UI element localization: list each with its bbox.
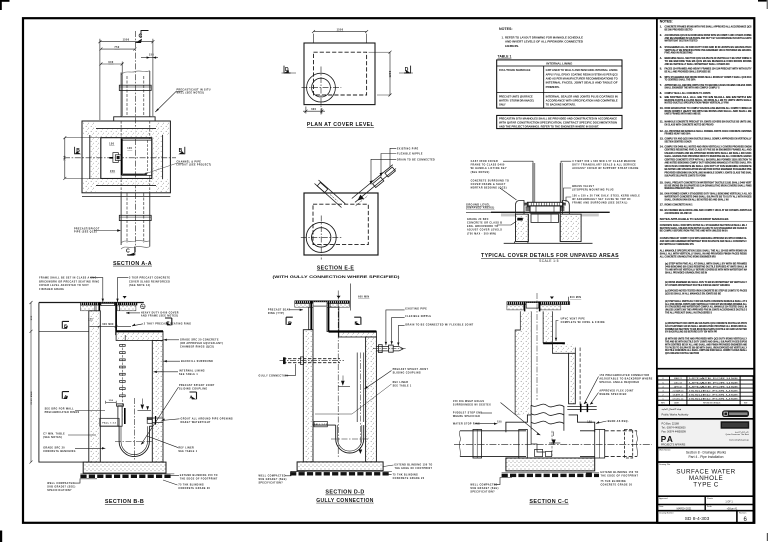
svg-text:150: 150 xyxy=(149,53,154,56)
dimension 750 xyxy=(99,46,136,51)
leader: cast iron cover (top left) xyxy=(471,160,533,174)
svg-text:WHERE SPECIFIED: WHERE SPECIFIED xyxy=(453,416,480,418)
overall depth dimension (left) xyxy=(30,301,33,464)
svg-text:FALL 1:12: FALL 1:12 xyxy=(314,423,328,426)
surround ring stipple corners xyxy=(83,122,170,192)
svg-text:600 MIN: 600 MIN xyxy=(570,297,581,299)
table 1 frame xyxy=(497,60,622,108)
benching edge hatched strip xyxy=(123,174,147,176)
svg-text:CONCRETE SURROUND TO: CONCRETE SURROUND TO xyxy=(471,181,510,183)
leader: heavy duty cover xyxy=(126,311,179,317)
leader: blinding concrete (bottom right 2) xyxy=(385,474,425,480)
svg-text:SD 8-4-303: SD 8-4-303 xyxy=(685,516,710,522)
leader: blinding concrete (bottom right 2) xyxy=(163,480,211,490)
svg-text:THE EDGE OF FOOTPRINT: THE EDGE OF FOOTPRINT xyxy=(180,478,218,480)
svg-text:COMPLETE W/ COWL & FIXING: COMPLETE W/ COWL & FIXING xyxy=(561,322,605,324)
svg-text:75 THK BLINDING: 75 THK BLINDING xyxy=(393,474,419,476)
cover centrelines xyxy=(301,236,342,238)
incoming pipe (top, plan) xyxy=(119,71,151,117)
svg-text:Date: Date xyxy=(659,505,663,508)
svg-text:ACCORDANCE WITH SPECIFICATION: ACCORDANCE WITH SPECIFICATION AND COMPAT… xyxy=(546,100,618,103)
dark anchor mark xyxy=(586,472,592,476)
leader: spigot pipe joint (diagonal) xyxy=(141,384,215,445)
svg-text:ACCORDANCE 124 AND UN: ACCORDANCE 124 AND UN xyxy=(665,211,692,215)
svg-text:LAYOUT (SEE PROJECT): LAYOUT (SEE PROJECT) xyxy=(177,164,212,167)
blinding layer xyxy=(502,474,599,477)
leader: bend as required xyxy=(596,420,629,424)
cover and frame band xyxy=(295,301,350,308)
svg-text:WITH QATAR CONSTRUCTION SPECIF: WITH QATAR CONSTRUCTION SPECIFICATION, C… xyxy=(499,122,617,125)
svg-text:THE EDGE OF FOOTPRINT: THE EDGE OF FOOTPRINT xyxy=(601,476,639,478)
svg-text:ISSUED FOR USE: ISSUED FOR USE xyxy=(689,398,739,400)
svg-text:C? MIN. TABLE: C? MIN. TABLE xyxy=(43,432,65,435)
svg-text:SUB GRADE? (SEE): SUB GRADE? (SEE) xyxy=(259,478,287,481)
leader: ground level (left) xyxy=(466,203,495,212)
channel (half pipe) xyxy=(336,425,364,453)
svg-text:75 THK BLINDING: 75 THK BLINDING xyxy=(178,485,204,487)
svg-text:Public Works Authority: Public Works Authority xyxy=(662,413,689,417)
ground shading strips xyxy=(501,213,516,216)
svg-text:SEE DRG FOR WALL: SEE DRG FOR WALL xyxy=(45,408,75,411)
svg-text:PRECAST/SPIGOT: PRECAST/SPIGOT xyxy=(74,228,100,231)
corner registration mark top-right xyxy=(758,0,768,9)
svg-text:EXISTING PIPE: EXISTING PIPE xyxy=(405,309,427,311)
svg-text:750: 750 xyxy=(114,46,119,49)
svg-text:SCALE 1:5: SCALE 1:5 xyxy=(539,259,559,263)
svg-text:NOTES:: NOTES: xyxy=(660,19,673,23)
svg-text:1500: 1500 xyxy=(337,29,344,32)
leader: existing pipe xyxy=(385,309,428,346)
gully connection pipe xyxy=(280,357,345,365)
base slab edge below square xyxy=(82,196,170,198)
benching xyxy=(313,424,336,426)
svg-text:1200: 1200 xyxy=(389,70,392,77)
svg-text:ADJUSTABLE TO BACKDROP WHERE: ADJUSTABLE TO BACKDROP WHERE xyxy=(599,377,652,380)
centerline xyxy=(134,31,136,252)
leader: frame bedding note (top left) xyxy=(39,276,104,302)
svg-text:PRECAST UNITS (SURFACE: PRECAST UNITS (SURFACE xyxy=(499,95,533,98)
corner registration mark top-left xyxy=(0,0,10,10)
leader: brass plug (right) xyxy=(564,185,615,200)
leader: see drawing note (left) xyxy=(45,408,105,415)
svg-text:INTERNAL LINING: INTERNAL LINING xyxy=(546,61,573,65)
leader: surround spec (right) xyxy=(566,194,640,204)
svg-text:IRONS CONCRETE IN IN 1: IRONS CONCRETE IN IN 1 xyxy=(665,203,693,207)
svg-text:Scale: Scale xyxy=(707,506,712,508)
section cut marker C (bottom) xyxy=(126,247,135,256)
svg-text:Sheets: Sheets xyxy=(707,497,713,500)
leader: extend blinding (bottom right) xyxy=(384,464,433,470)
svg-text:COVER FRAME & SHAFT: COVER FRAME & SHAFT xyxy=(471,183,506,186)
svg-text:WELL COMPACTED: WELL COMPACTED xyxy=(47,482,74,485)
dimension 1200 (right) xyxy=(369,51,392,97)
svg-text:600 MIN: 600 MIN xyxy=(358,297,369,299)
section flag E (right) xyxy=(165,318,172,326)
svg-text:(SEE NOTES): (SEE NOTES) xyxy=(43,437,62,439)
cover and frame band xyxy=(81,303,138,311)
base slab xyxy=(506,458,595,471)
svg-text:(WITH GULLY CONNECTION WHERE S: (WITH GULLY CONNECTION WHERE SPECIFIED) xyxy=(273,274,401,279)
svg-text:EXTEND BLINDING 150 TO: EXTEND BLINDING 150 TO xyxy=(601,472,639,474)
svg-text:DRAIN TO BE CONNECTED W/ FLEXI: DRAIN TO BE CONNECTED W/ FLEXIBLE JOINT xyxy=(405,323,473,326)
svg-text:EN VERTICALLY BENCHING STE: EN VERTICALLY BENCHING STE xyxy=(660,242,694,246)
svg-text:WELL COMPACTED: WELL COMPACTED xyxy=(259,475,286,478)
svg-text:PRECAST/IN SITU MANHOLES SHALL: PRECAST/IN SITU MANHOLES SHALL BE PROVID… xyxy=(499,118,617,121)
dimension 600 (bottom) xyxy=(303,107,325,114)
pipe centreline xyxy=(454,443,652,445)
svg-text:WATER STOP RING: WATER STOP RING xyxy=(453,423,480,426)
left chamber wall xyxy=(303,330,313,462)
clear opening (dashed) xyxy=(314,52,367,95)
svg-text:AND INVERT LEVELS OF ALL PIPEW: AND INVERT LEVELS OF ALL PIPEWORK CONNEC… xyxy=(505,40,583,44)
revision table xyxy=(657,376,753,405)
title block xyxy=(657,405,753,523)
svg-text:CONCRETE GRADE 20: CONCRETE GRADE 20 xyxy=(393,477,425,480)
drop pipe in chamber xyxy=(357,353,364,455)
svg-text:ACCESS? COVER W/ SUPPORT STRAP: ACCESS? COVER W/ SUPPORT STRAP FRAME xyxy=(572,167,639,170)
svg-text:09 APR 15: 09 APR 15 xyxy=(673,393,684,396)
svg-text:SPECIFICATION?: SPECIFICATION? xyxy=(259,482,284,485)
leader: flexible nipple xyxy=(380,154,423,177)
svg-text:ADJUST COVER LEVELS: ADJUST COVER LEVELS xyxy=(467,229,502,232)
svg-text:100: 100 xyxy=(127,148,132,150)
section flag A (left) xyxy=(62,392,69,399)
svg-text:WALL (SEE NOTES): WALL (SEE NOTES) xyxy=(177,92,205,95)
chamber internals xyxy=(531,431,560,457)
svg-text:BACKFILL SURROUND: BACKFILL SURROUND xyxy=(181,360,213,363)
leader: cover spec note (top right) xyxy=(116,276,170,302)
svg-text:21 MAR 16: 21 MAR 16 xyxy=(673,389,685,392)
svg-text:150: 150 xyxy=(88,319,93,321)
svg-text:Revision: Revision xyxy=(739,513,746,515)
riser walls xyxy=(532,163,534,202)
svg-text:Drawing Number: Drawing Number xyxy=(659,512,674,515)
svg-text:MAKE? WATERTIGHT: MAKE? WATERTIGHT xyxy=(181,421,211,424)
benching xyxy=(100,425,119,427)
step iron detail xyxy=(109,153,121,163)
reducing slab (right) xyxy=(116,331,163,340)
svg-text:UPDATE FOR USE: UPDATE FOR USE xyxy=(689,381,739,384)
svg-text:NOTED DUCTILE SPECIFICATION FI: NOTED DUCTILE SPECIFICATION FINISH VERTI… xyxy=(665,101,729,105)
svg-text:3 TIER? 600 x 600 MIN 1.5T CLE: 3 TIER? 600 x 600 MIN 1.5T CLEAR MEDIUM xyxy=(572,160,635,163)
svg-text:علم قطر للجميع: علم قطر للجميع xyxy=(735,430,749,433)
svg-text:SURROUNDED W/ GEOTEX: SURROUNDED W/ GEOTEX xyxy=(453,404,491,406)
leader: gl min table xyxy=(43,432,96,439)
section flag A (right) xyxy=(190,392,197,400)
svg-text:SPECIAL ANGLE REQUIRED: SPECIAL ANGLE REQUIRED xyxy=(599,381,639,384)
svg-text:PA: PA xyxy=(661,435,674,444)
bitumen seal mark xyxy=(517,218,523,221)
right wall (concrete) xyxy=(152,341,163,463)
svg-text:CONCRETE GRADE 20: CONCRETE GRADE 20 xyxy=(178,487,210,490)
corner registration mark bottom-left xyxy=(0,531,2,542)
step irons xyxy=(120,344,126,420)
vertical pipe piece / step detail xyxy=(117,404,125,426)
svg-text:Qatar Deserves The Best: Qatar Deserves The Best xyxy=(725,433,749,436)
notes panel bottom rule xyxy=(657,368,755,370)
svg-text:3 TIER PRECAST CONCRETE: 3 TIER PRECAST CONCRETE xyxy=(129,276,171,279)
svg-text:FLEXIBLE NIPPLE: FLEXIBLE NIPPLE xyxy=(397,154,423,156)
svg-text:14.: 14. xyxy=(660,144,664,148)
svg-text:(SEE NOTES): (SEE NOTES) xyxy=(471,172,490,174)
svg-text:DUTY TRIANGULAR? SEALS & ALL S: DUTY TRIANGULAR? SEALS & ALL SERVICE xyxy=(572,164,636,167)
svg-text:CONCRETE OR CLASS B: CONCRETE OR CLASS B xyxy=(467,222,502,225)
leader: precast seating ring xyxy=(132,323,191,326)
svg-text:11.: 11. xyxy=(660,120,664,124)
svg-text:UPDATE FOR USE: UPDATE FOR USE xyxy=(689,377,739,380)
bottom line xyxy=(504,242,593,244)
right outer wall xyxy=(569,353,576,404)
cover and frame band xyxy=(507,302,570,310)
water symbol xyxy=(550,297,554,300)
opening edge heavy line xyxy=(121,139,123,176)
svg-text:GRADE 20 SRC: GRADE 20 SRC xyxy=(467,218,489,221)
svg-text:CAST IRON COVER: CAST IRON COVER xyxy=(471,160,498,163)
base slab xyxy=(83,462,166,473)
wall outer face xyxy=(90,128,163,185)
leader: mortar joint (right) xyxy=(164,338,224,348)
dimension 1200 (left) xyxy=(63,136,101,180)
left wall (concrete) xyxy=(89,311,101,462)
bench blocks xyxy=(506,415,531,432)
svg-text:16.: 16. xyxy=(660,192,664,196)
svg-text:FIVE AND IN RESISTING: FIVE AND IN RESISTING xyxy=(665,51,693,55)
svg-text:TABLE 1: TABLE 1 xyxy=(498,55,512,59)
svg-text:6.: 6. xyxy=(660,75,662,79)
svg-text:INTERNAL LINING: INTERNAL LINING xyxy=(179,370,205,373)
svg-text:SPECIFICATION?: SPECIFICATION? xyxy=(47,489,72,492)
leader: precast wall note xyxy=(155,89,210,112)
svg-text:4.: 4. xyxy=(660,56,662,60)
svg-text:APPLY FULL EPOXY COATING RESIN: APPLY FULL EPOXY COATING RESIN SYSTEM AS… xyxy=(546,73,618,76)
leader: prefabricated connector xyxy=(584,374,653,404)
opening edges xyxy=(310,301,312,330)
svg-text:BE 300 PROVIDED SECTIO: BE 300 PROVIDED SECTIO xyxy=(665,27,693,31)
water symbol above cover xyxy=(123,296,127,299)
svg-text:12.: 12. xyxy=(660,129,664,133)
leader: water stop xyxy=(453,423,497,426)
leader: watertight grout xyxy=(162,417,234,424)
svg-text:150 PREFABRICATED CONNECTOR: 150 PREFABRICATED CONNECTOR xyxy=(599,374,649,377)
svg-text:150: 150 xyxy=(109,400,114,402)
svg-text:PREFABRICATED RINGS: PREFABRICATED RINGS xyxy=(45,411,80,414)
svg-text:150: 150 xyxy=(110,170,116,173)
svg-text:NOTES APPLICABLE TO BACKDROP M: NOTES APPLICABLE TO BACKDROP MANHOLES xyxy=(660,217,729,221)
leader: compacted subgrade (bottom left) xyxy=(259,471,306,484)
svg-text:15.: 15. xyxy=(660,180,664,184)
svg-text:1.: 1. xyxy=(660,25,662,29)
svg-text:Section 8 - Drainage Works: Section 8 - Drainage Works xyxy=(686,451,727,455)
svg-text:COVER LEVEL ADJUSTED TO SUIT: COVER LEVEL ADJUSTED TO SUIT xyxy=(39,284,89,287)
svg-text:C: C xyxy=(126,249,130,255)
leader: extend blinding (bottom right) xyxy=(601,472,639,478)
svg-text:Fax: 00974 44950599: Fax: 00974 44950599 xyxy=(662,431,687,434)
main pipe (left) xyxy=(459,429,527,458)
svg-text:MAR 21: MAR 21 xyxy=(674,377,683,380)
svg-text:REF LINER: REF LINER xyxy=(178,447,194,449)
leader: existing pipe xyxy=(390,148,419,167)
svg-text:SEE TABLE 1: SEE TABLE 1 xyxy=(179,373,198,376)
notes column text xyxy=(660,19,753,355)
inlet pipe (top-left diagonal) xyxy=(315,180,346,208)
dimension 600 (shaft) xyxy=(89,324,131,328)
svg-text:SUB GRADE? (SEE): SUB GRADE? (SEE) xyxy=(470,487,498,490)
svg-text:EXTEND BLINDING 150 TO: EXTEND BLINDING 150 TO xyxy=(180,475,218,477)
existing pipe (top-right diagonal) xyxy=(352,165,396,206)
section cut marker B (left) xyxy=(75,147,81,154)
svg-text:PRECAST/CAST IN SITU: PRECAST/CAST IN SITU xyxy=(177,89,211,92)
svg-text:2150 MAX: 2150 MAX xyxy=(30,391,33,405)
leader: extend blinding (bottom right) xyxy=(170,475,218,481)
svg-text:(UNPAVED AREAS): (UNPAVED AREAS) xyxy=(466,207,495,210)
opening edges xyxy=(524,302,526,312)
manhole surround (outer square) xyxy=(82,121,170,193)
leader: precast seating (left) xyxy=(268,309,303,315)
notes column divider xyxy=(656,18,658,523)
svg-text:GULLY CONNECTION: GULLY CONNECTION xyxy=(259,375,289,377)
svg-text:ISSUED FOR USE: ISSUED FOR USE xyxy=(689,394,739,396)
svg-text:SLIDING COUPLING: SLIDING COUPLING xyxy=(179,388,207,390)
svg-text:REFER TO LAYOUT DRAWING FOR MA: REFER TO LAYOUT DRAWING FOR MANHOLE SCHE… xyxy=(505,35,583,39)
svg-text:HEAVY DUTY D400 COVER: HEAVY DUTY D400 COVER xyxy=(141,311,179,314)
svg-text:BE ALL AND PROVIDED SHALL EXPO: BE ALL AND PROVIDED SHALL EXPOSED BE xyxy=(665,70,711,74)
leader: triple seal cover (top right) xyxy=(561,160,639,170)
svg-text:GROUT ALL AROUND PIPE OPENING: GROUT ALL AROUND PIPE OPENING xyxy=(181,417,234,420)
svg-text:SECTION C-C: SECTION C-C xyxy=(529,499,568,505)
svg-text:13.: 13. xyxy=(660,137,664,141)
leader: drain connection xyxy=(397,323,474,346)
svg-text:W/ ANCHORAGE? SET FLUSH W/ TOP: W/ ANCHORAGE? SET FLUSH W/ TOP OF xyxy=(572,198,631,201)
svg-text:FLEXIBLE NIPPLE: FLEXIBLE NIPPLE xyxy=(405,316,431,318)
svg-text:150: 150 xyxy=(497,421,502,423)
svg-text:AND FRAME (SEE NOTES): AND FRAME (SEE NOTES) xyxy=(141,315,178,318)
svg-text:ISSUED FOR USE: ISSUED FOR USE xyxy=(689,390,739,392)
shallow chamber extent outline xyxy=(39,303,90,463)
concrete surround xyxy=(516,214,529,241)
svg-text:FRAME SHALL BE SET IN CLASS A: FRAME SHALL BE SET IN CLASS A ENG. xyxy=(39,276,98,279)
pipe walls through chamber (hidden) xyxy=(120,121,122,139)
svg-text:3.: 3. xyxy=(660,45,662,49)
top collar / cover slab edge xyxy=(114,117,155,121)
svg-text:750: 750 xyxy=(64,155,67,160)
svg-text:TO CENTRES SHALL THE GRA: TO CENTRES SHALL THE GRA xyxy=(665,78,696,82)
svg-text:(SEE NOTE 14): (SEE NOTE 14) xyxy=(129,284,151,287)
svg-text:CHANNEL & PIPE: CHANNEL & PIPE xyxy=(177,161,202,164)
svg-text:UPDATE FOR USE: UPDATE FOR USE xyxy=(689,385,739,388)
leader: internal lining xyxy=(154,370,205,377)
svg-text:FINISHED GRADE: FINISHED GRADE xyxy=(39,288,64,291)
leader: concrete surround (left) xyxy=(471,181,517,201)
right shaft wall xyxy=(327,307,339,331)
fall label box xyxy=(100,418,119,426)
ground level line xyxy=(39,302,144,304)
svg-text:75 THK BLINDING: 75 THK BLINDING xyxy=(601,481,627,483)
blinding layer xyxy=(80,475,170,478)
svg-text:QCS UNLESS DUCTILE SECTION: QCS UNLESS DUCTILE SECTION xyxy=(665,351,699,355)
backdrop connector through right wall xyxy=(567,404,596,412)
svg-text:600: 600 xyxy=(311,108,316,111)
svg-text:MANHOLE PRECAST FIVE UN: MANHOLE PRECAST FIVE UN xyxy=(665,186,694,190)
svg-text:SUB GRADE? (SEE): SUB GRADE? (SEE) xyxy=(47,485,75,488)
svg-text:PUDDLE? STOP END: PUDDLE? STOP END xyxy=(453,412,483,414)
svg-text:REVISION DETAILS: REVISION DETAILS xyxy=(703,402,721,405)
leader: flexible nipple xyxy=(391,316,432,344)
svg-text:SHALL ENGINEER THE WITH AND CO: SHALL ENGINEER THE WITH AND COMPLY COMPL… xyxy=(665,86,720,90)
svg-text:WATERTIGHT SECTION TESTED: WATERTIGHT SECTION TESTED xyxy=(665,39,698,43)
leader: compacted subgrade (bottom left) xyxy=(470,478,512,494)
svg-text:THE ALL PRECAST SHALL IN STAGG: THE ALL PRECAST SHALL IN STAGGERED S xyxy=(665,311,712,315)
svg-text:FOUL/TRADE SEWERAGE: FOUL/TRADE SEWERAGE xyxy=(499,69,531,72)
svg-text:PRIMERS.: PRIMERS. xyxy=(546,86,560,89)
svg-text:SEE TABLE 1: SEE TABLE 1 xyxy=(393,384,412,387)
section cut marker D (left) xyxy=(282,66,297,73)
saddle waves above pipe xyxy=(531,404,564,431)
svg-text:BRASS VALVE?: BRASS VALVE? xyxy=(572,185,594,188)
svg-text:APPROVED FLEX JOINT: APPROVED FLEX JOINT xyxy=(599,389,634,392)
svg-text:Drawing Title: Drawing Title xyxy=(659,463,670,466)
svg-text:PRECAST SPIGOT JOINT: PRECAST SPIGOT JOINT xyxy=(179,384,215,387)
flow arrow detail xyxy=(339,376,351,387)
right shaft wall (stepped) xyxy=(543,311,552,343)
pipe coupling xyxy=(119,85,151,90)
svg-text:FRAME TO CLASS D400: FRAME TO CLASS D400 xyxy=(471,164,505,167)
leader: approved flexible joint xyxy=(590,389,634,404)
svg-text:SULPHATE SULPHATE JOINTS TO FO: SULPHATE SULPHATE JOINTS TO FORM xyxy=(665,174,707,178)
svg-text:EN CLASS WITH CONCRETE NOTED B: EN CLASS WITH CONCRETE NOTED BE PROVID xyxy=(665,123,714,127)
excavation dashed line xyxy=(579,348,581,406)
svg-text:SECTION D-D: SECTION D-D xyxy=(325,490,364,496)
svg-text:PRECAST SPIGOT JOINT: PRECAST SPIGOT JOINT xyxy=(393,368,429,371)
svg-text:EXISTING PIPE: EXISTING PIPE xyxy=(397,148,419,150)
corbel step heavy line xyxy=(543,343,575,347)
main pipe (right, existing - dashed) xyxy=(580,429,638,458)
svg-text:Work Section: Work Section xyxy=(659,448,670,451)
chamber outline xyxy=(304,193,378,255)
section flag E (left) xyxy=(62,321,69,328)
svg-text:5.: 5. xyxy=(660,67,662,71)
svg-text:INTERNAL SEALER AND JOINTS PLU: INTERNAL SEALER AND JOINTS PLUS COATINGS… xyxy=(546,95,618,98)
corner registration mark bottom-right xyxy=(767,533,768,541)
leader: backfill xyxy=(164,360,214,363)
svg-text:PRECAST SEAT: PRECAST SEAT xyxy=(268,309,291,312)
pipe connector through right wall xyxy=(147,416,163,425)
svg-text:REF LINER: REF LINER xyxy=(393,382,409,384)
svg-text:1500: 1500 xyxy=(123,39,130,42)
internal face (dashed) xyxy=(313,204,368,244)
svg-text:600 MIN: 600 MIN xyxy=(102,324,113,326)
svg-text:QCS BS SHALL IN ALL MANHOLE EN: QCS BS SHALL IN ALL MANHOLE EN JOINTS BS… xyxy=(665,292,721,296)
access cover circle xyxy=(306,222,336,252)
svg-text:10.: 10. xyxy=(660,106,664,110)
svg-text:2.: 2. xyxy=(660,33,662,37)
fall label box xyxy=(314,421,327,426)
svg-text:HEREIN.: HEREIN. xyxy=(505,44,519,48)
dimension 1500 (top) xyxy=(98,39,154,120)
svg-text:NOTES:: NOTES: xyxy=(499,27,513,31)
manhole cover circle xyxy=(307,73,336,102)
svg-text:GRP LINER TO WALLS AND BENCHIN: GRP LINER TO WALLS AND BENCHING INTERNAL… xyxy=(546,69,618,72)
svg-text:THE EDGE OF FOOTPRINT: THE EDGE OF FOOTPRINT xyxy=(395,468,433,470)
svg-text:GRADE SRC 20 CONCRETE: GRADE SRC 20 CONCRETE xyxy=(180,338,219,341)
channel (half pipe) xyxy=(119,426,149,456)
svg-text:600: 600 xyxy=(108,61,113,64)
svg-text:CHAMBER RINGS (QCS): CHAMBER RINGS (QCS) xyxy=(180,346,214,349)
svg-text:هيئة الاشغال العامة: هيئة الاشغال العامة xyxy=(662,407,682,411)
leader: puddle flange (diagonal) xyxy=(453,400,540,435)
E flags xyxy=(286,317,293,325)
base slab xyxy=(297,462,383,471)
leader: vent pipe note xyxy=(555,318,605,341)
